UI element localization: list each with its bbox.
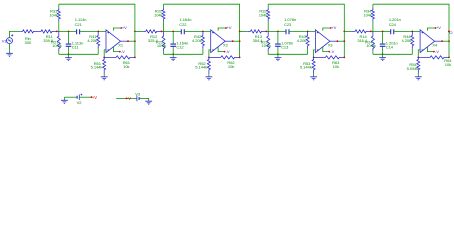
wire from stage 1 output: [135, 30, 143, 32]
wire inverting input of X4: [418, 50, 420, 58]
svg-text:104k: 104k: [49, 12, 58, 17]
svg-text:10k: 10k: [445, 62, 451, 67]
svg-text:4.20k: 4.20k: [192, 38, 202, 43]
wire node A: [266, 30, 286, 32]
resistor R11: [38, 30, 56, 33]
wire node A: [162, 30, 182, 32]
wire gnd to V2: [64, 96, 77, 98]
wire inverting input of X3: [314, 50, 316, 58]
op-amp X1: [106, 30, 121, 53]
resistor R62: [209, 56, 240, 59]
svg-text:V1: V1: [2, 38, 8, 43]
output pin of X3: [330, 40, 338, 42]
ground bottom rail: [172, 54, 174, 57]
resistor R32 feedback: [163, 4, 165, 8]
output pin of X1: [121, 40, 129, 42]
op-amp X2: [211, 30, 226, 53]
wire bottom rail: [164, 53, 203, 55]
capacitor C14: [382, 31, 384, 43]
output pin of X4: [435, 40, 443, 42]
wire V3 to ground: [139, 98, 149, 101]
pin V+ of X1: [113, 28, 121, 31]
resistor R52: [207, 57, 210, 73]
resistor R53: [312, 57, 315, 73]
wire feedback top rail: [268, 4, 344, 57]
capacitor C21: [77, 29, 80, 34]
svg-text:104k: 104k: [154, 12, 163, 17]
capacitor C12: [172, 31, 174, 43]
wire feedback top rail: [164, 4, 240, 57]
svg-text:5.144k: 5.144k: [300, 65, 312, 70]
svg-text:10.2k: 10.2k: [262, 43, 272, 48]
wire V2 to +V: [79, 96, 91, 98]
svg-text:C14: C14: [386, 44, 394, 49]
ground under R52: [206, 77, 213, 80]
wire node A: [371, 30, 391, 32]
wire inverting input of X2: [209, 50, 211, 58]
svg-text:300: 300: [25, 40, 32, 45]
ground under R53: [310, 77, 317, 80]
capacitor C22: [181, 29, 184, 34]
svg-text:+V: +V: [122, 25, 127, 30]
node Out: [448, 31, 450, 33]
resistor R24: [371, 31, 374, 51]
resistor R41: [97, 31, 100, 48]
output pin of X2: [225, 40, 233, 42]
wire bottom rail: [59, 53, 98, 55]
wire from stage 2 output: [240, 30, 248, 32]
svg-text:5.144k: 5.144k: [195, 65, 207, 70]
pin V+ of X4: [428, 28, 436, 31]
pin V- of X4: [428, 47, 434, 52]
battery V2: [76, 96, 78, 99]
resistor R14: [353, 30, 371, 33]
svg-text:-V: -V: [226, 49, 230, 54]
svg-text:5.054k: 5.054k: [407, 66, 419, 71]
source V1: [7, 38, 13, 44]
resistor R31 feedback: [58, 4, 60, 8]
ground under R51: [101, 77, 108, 80]
pin V+ of X2: [218, 28, 226, 31]
svg-text:X2: X2: [223, 42, 229, 47]
resistor R44: [411, 31, 414, 48]
ground bottom rail: [277, 54, 279, 57]
svg-text:V2: V2: [77, 100, 83, 105]
svg-text:10k: 10k: [123, 64, 129, 69]
op-amp X3: [315, 30, 330, 53]
resistor R13: [248, 30, 266, 33]
resistor R51: [103, 57, 106, 73]
svg-text:-V: -V: [435, 49, 439, 54]
wire feedback top rail: [373, 4, 449, 57]
pin V- of X1: [113, 47, 119, 52]
resistor R54: [417, 57, 420, 73]
svg-text:-V: -V: [127, 96, 131, 101]
resistor R33 feedback: [267, 4, 269, 8]
svg-text:10k: 10k: [228, 64, 234, 69]
wire bottom rail: [373, 53, 412, 55]
ground under R54: [415, 77, 422, 80]
resistor R21: [57, 31, 60, 51]
wire node A: [57, 30, 77, 32]
svg-text:X4: X4: [432, 42, 438, 47]
svg-text:C13: C13: [281, 44, 289, 49]
svg-text:C22: C22: [179, 22, 187, 27]
svg-text:+V: +V: [331, 25, 336, 30]
resistor R34 feedback: [372, 4, 374, 8]
wire inverting input of X1: [104, 50, 106, 58]
svg-text:V3: V3: [135, 92, 141, 97]
svg-text:+V: +V: [227, 25, 232, 30]
pin V- of X3: [323, 47, 329, 52]
svg-text:C11: C11: [72, 44, 80, 49]
op-amp X4: [420, 30, 435, 53]
svg-text:O: O: [449, 30, 452, 35]
capacitor C24: [391, 29, 394, 34]
svg-text:+V: +V: [92, 95, 97, 100]
svg-text:+V: +V: [436, 25, 441, 30]
svg-text:C12: C12: [176, 44, 184, 49]
svg-text:-V: -V: [121, 49, 125, 54]
svg-text:10k: 10k: [333, 64, 339, 69]
pin V- of X2: [218, 47, 224, 52]
resistor R63: [314, 56, 345, 59]
svg-text:104k: 104k: [259, 12, 268, 17]
svg-text:4.20k: 4.20k: [297, 38, 307, 43]
battery V3: [136, 96, 138, 102]
svg-text:5.144k: 5.144k: [91, 65, 103, 70]
resistor Rin: [20, 30, 38, 33]
svg-text:4.20k: 4.20k: [401, 38, 411, 43]
svg-text:10.5k: 10.5k: [52, 43, 62, 48]
capacitor C11: [68, 31, 70, 43]
ground for V2: [63, 97, 65, 100]
ground under V1: [6, 53, 13, 56]
svg-text:X1: X1: [118, 42, 124, 47]
resistor R61: [104, 56, 135, 59]
svg-text:4.20k: 4.20k: [87, 38, 97, 43]
ground bottom rail: [68, 54, 70, 57]
capacitor C23: [286, 29, 289, 34]
wire V1 bottom to ground: [9, 44, 11, 53]
svg-text:-V: -V: [330, 49, 334, 54]
ground bottom rail: [382, 54, 384, 57]
svg-text:10.3k: 10.3k: [366, 43, 376, 48]
wire feedback top rail: [59, 4, 135, 57]
resistor R22: [162, 31, 165, 51]
resistor R12: [143, 30, 161, 33]
svg-text:104k: 104k: [363, 12, 372, 17]
svg-text:10.5k: 10.5k: [157, 43, 167, 48]
svg-text:C21: C21: [75, 22, 83, 27]
wire bottom rail: [268, 53, 307, 55]
wire -V to V3: [116, 97, 137, 99]
svg-text:C24: C24: [389, 22, 397, 27]
wire V1 top to Rin: [10, 31, 21, 37]
resistor R23: [267, 31, 270, 51]
wire from stage 3 output: [344, 30, 352, 32]
resistor R43: [306, 31, 309, 48]
capacitor C13: [277, 31, 279, 43]
svg-text:C23: C23: [284, 22, 292, 27]
resistor R64: [418, 56, 449, 59]
ground for V3: [145, 101, 152, 104]
resistor R42: [201, 31, 204, 48]
svg-text:X3: X3: [328, 42, 334, 47]
pin V+ of X3: [323, 28, 331, 31]
